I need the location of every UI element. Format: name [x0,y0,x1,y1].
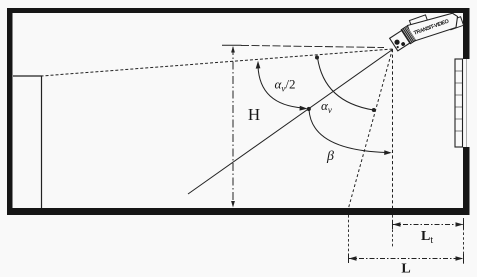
dimension L line [349,258,464,260]
wire: horizontal camera-height reference dashed line [241,45,384,47]
camera lens circle 1 [393,39,400,46]
camera mount band hatch [403,27,416,43]
wall right lower [463,147,470,215]
wall left [7,8,13,215]
wire: upper FOV dashed line camera to screen corner [42,49,393,76]
dimension L right tick [463,254,465,263]
dimension Lt line [393,224,464,226]
svg-text:αv/2: αv/2 [275,77,296,94]
window inner ticks [456,71,463,131]
camera lens circle 2 [401,41,406,46]
dimension L right arrow [456,256,464,261]
wire: extension line at x=463.5 below wall [463,218,465,266]
wire: extension line at x=348.5 below floor [348,215,350,263]
dimension Lt right arrow [456,222,464,227]
arc alpha_v start dot [315,56,319,60]
wall right upper [463,8,470,59]
node: junction dot on optical axis [307,107,311,111]
camera assembly [389,4,464,52]
wire: extension line at x=392.5 below floor [392,215,394,247]
wire: lower FOV dotted line camera to floor [349,49,393,208]
arc beta [309,110,390,153]
camera rear connector [448,17,464,30]
arc alpha_v [318,58,374,111]
svg-text:L: L [401,262,410,277]
window (right wall opening) [455,59,463,147]
dimension H top tick [222,44,242,46]
arc alpha_v/2 end arrow [300,106,308,111]
wire: vertical dotted line below camera [392,49,394,208]
dimension Lt left tick [392,220,394,229]
svg-text:H: H [248,105,260,124]
camera front group [389,26,416,52]
arc beta end arrow [384,150,392,155]
camera mount band [401,26,416,44]
dimension H top arrow [231,46,235,53]
arc alpha_v/2 [258,66,304,108]
dimension L left tick [348,254,350,263]
camera body group [406,4,464,43]
wire: optical axis solid line [188,50,393,195]
arc alpha_v/2 top arrow [256,61,261,69]
arc alpha_v end dot [372,108,376,112]
dimension L left arrow [349,256,357,261]
camera body [407,9,460,43]
camera lens circle 3 [396,46,399,49]
svg-text:β: β [326,149,334,164]
dimension Lt left arrow [393,222,401,227]
camera handle [409,15,427,27]
dimension Lt right tick [463,220,465,229]
camera front plate [390,31,410,51]
dimension H vertical dash-dot line [232,47,234,206]
wall bottom [7,208,470,215]
dimension H bottom arrow [231,201,235,208]
wall top [7,8,470,13]
window outer faint line [466,59,468,147]
screen on left wall [13,76,42,208]
